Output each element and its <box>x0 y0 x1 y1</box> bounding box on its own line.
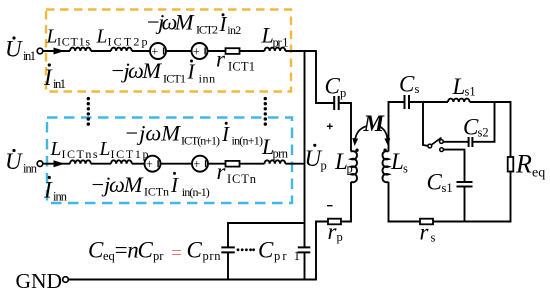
svg-text:ICT2p: ICT2p <box>108 35 148 49</box>
svg-text:prn: prn <box>273 147 289 161</box>
wire: Req to bottom rail <box>433 172 511 222</box>
svg-text:L: L <box>390 149 404 174</box>
switch pole contact <box>428 144 432 148</box>
wire: branch n output to rail <box>285 163 304 165</box>
ellipsis between branches left <box>87 97 90 126</box>
inductor L_ICT2p <box>111 48 132 51</box>
wire: Cp feed down <box>316 50 334 103</box>
polarity dot secondary <box>383 149 386 152</box>
svg-text:ICTn: ICTn <box>227 172 257 186</box>
svg-text:pr 1: pr 1 <box>273 36 289 50</box>
wire: r_s to Ls bottom <box>389 182 421 222</box>
svg-text:in1: in1 <box>53 77 66 91</box>
resistor r_ICTn <box>226 161 240 167</box>
svg-text:ICTns: ICTns <box>62 147 98 161</box>
switch throw contact to Cs2 <box>440 140 444 144</box>
svg-text:in(n-1): in(n-1) <box>182 185 210 199</box>
svg-text:I: I <box>221 122 230 146</box>
wire <box>132 163 145 165</box>
inductor L_prn <box>265 160 286 163</box>
wire: Cs2 to top rail <box>472 101 494 142</box>
mutual coupling arrow right <box>379 126 388 140</box>
wire <box>240 50 265 52</box>
svg-text:C: C <box>187 238 203 263</box>
inductor L_ICT1p <box>111 160 132 163</box>
svg-text:+: + <box>151 44 158 58</box>
svg-text:s: s <box>431 231 436 245</box>
wire: C_prn top branch <box>228 223 305 247</box>
wire <box>208 163 226 165</box>
current arrow I_inn <box>54 160 65 167</box>
capacitor C_prn <box>221 247 235 252</box>
svg-text:I: I <box>43 65 53 90</box>
wire <box>132 50 150 52</box>
svg-text:ICT1: ICT1 <box>228 60 255 74</box>
svg-text:ICT2: ICT2 <box>196 23 218 37</box>
wire: Cs1 to bottom rail <box>464 187 466 222</box>
label + (U_p polarity) <box>327 123 333 129</box>
wire: r_p to ground rail <box>316 222 328 281</box>
inductor L_ICT1s <box>70 48 91 51</box>
svg-text:−jωM: −jωM <box>146 10 195 35</box>
capacitor Cs1 <box>457 182 473 187</box>
capacitor Cs <box>405 95 410 109</box>
svg-text:C: C <box>325 74 341 99</box>
svg-text:ICT1: ICT1 <box>163 72 186 86</box>
svg-text:GND: GND <box>16 269 63 293</box>
wire: throw to Cs2 <box>443 141 468 143</box>
svg-text:p: p <box>347 162 353 176</box>
svg-text:s: s <box>403 162 408 176</box>
svg-text:C: C <box>258 238 274 263</box>
resistor r_s <box>420 219 433 225</box>
dashed box: ICT branch n (cyan) <box>47 118 292 204</box>
svg-text:L: L <box>96 27 108 48</box>
svg-text:M: M <box>363 111 386 136</box>
svg-text:p: p <box>337 230 343 244</box>
svg-text:C: C <box>88 238 104 263</box>
polarity dot primary <box>355 149 358 152</box>
mutual coupling arrow left <box>355 126 366 140</box>
ellipsis between C_prn and C_pr1 <box>237 248 255 251</box>
wire <box>161 163 193 165</box>
dependent source -jwM_ICT2*I_in2 (circle U1a) <box>150 43 166 59</box>
svg-text:I: I <box>187 60 196 84</box>
dependent source -jwM_ICTn*I_in(n-1) (circle Unb) <box>192 156 208 172</box>
svg-text:−jωM: −jωM <box>110 58 162 83</box>
svg-text:s1: s1 <box>442 181 453 195</box>
svg-text:pr: pr <box>153 249 164 263</box>
resistor r_ICT1 <box>226 48 240 54</box>
svg-text:r: r <box>217 159 227 184</box>
svg-text:ICT1s: ICT1s <box>57 35 90 49</box>
wire: main vertical rail node P <box>304 50 306 247</box>
svg-text:C: C <box>399 72 415 97</box>
svg-text:−jωM: −jωM <box>124 121 181 146</box>
resistor r_p <box>328 219 341 225</box>
wire: Uin1 to L_ICT1s <box>43 50 70 52</box>
wire: Cs to Ls1 <box>409 101 448 103</box>
wire <box>208 50 226 52</box>
svg-text:s2: s2 <box>478 126 489 140</box>
wire: rail below C_pr1 to ground rail <box>304 252 306 280</box>
capacitor Cp <box>334 96 339 110</box>
svg-text:r: r <box>216 47 226 72</box>
svg-text:s1: s1 <box>465 85 476 99</box>
svg-text:L: L <box>50 139 62 160</box>
wire: Ls1 to right rail <box>470 102 511 157</box>
wire: Cp to Lp <box>339 103 351 152</box>
resistor Req <box>508 157 514 172</box>
inductor Ls1 <box>448 99 470 102</box>
svg-text:L: L <box>452 74 466 99</box>
label - (U_p polarity) <box>327 205 333 207</box>
svg-text:eq: eq <box>532 166 545 181</box>
svg-text:inn: inn <box>23 162 38 176</box>
dependent source -jwM_ICT(n+1)*I_in(n+1) (circle Una) <box>145 156 161 172</box>
svg-text:I: I <box>170 173 179 197</box>
svg-text:prn: prn <box>203 249 222 263</box>
dashed box: ICT branch 1 (yellow) <box>46 10 291 92</box>
svg-text:r: r <box>420 220 430 245</box>
wire <box>91 50 111 52</box>
wire <box>166 50 192 52</box>
capacitor Cs2 <box>469 137 473 147</box>
inductor Ls (secondary) <box>383 151 389 182</box>
svg-text:=: = <box>115 238 128 263</box>
svg-text:s: s <box>415 82 420 96</box>
svg-text:ICTn: ICTn <box>144 185 169 199</box>
switch lever <box>432 138 442 145</box>
node Uin1 terminal <box>37 48 43 54</box>
svg-text:inn: inn <box>199 72 216 86</box>
ellipsis between branches right <box>264 97 267 126</box>
svg-text:+: + <box>193 157 200 171</box>
svg-text:I: I <box>43 178 53 203</box>
svg-text:L: L <box>99 139 111 160</box>
svg-text:ICT1p: ICT1p <box>111 147 149 161</box>
svg-text:=: = <box>171 244 181 264</box>
svg-text:+: + <box>193 44 200 58</box>
wire <box>240 163 265 165</box>
svg-text:in1: in1 <box>23 49 36 63</box>
capacitor C_pr1 <box>298 247 311 252</box>
inductor L_pr1 <box>265 48 286 51</box>
svg-text:ICT(n+1): ICT(n+1) <box>181 134 220 148</box>
svg-text:C: C <box>427 170 443 195</box>
svg-text:inn: inn <box>53 190 68 204</box>
wire: branch1 output to Cp branch corner <box>285 50 316 52</box>
wire: throw to Cs1 <box>444 150 465 182</box>
svg-text:in(n+1): in(n+1) <box>232 134 264 148</box>
wire: switch feed from Cs node <box>423 101 428 146</box>
svg-text:in2: in2 <box>227 23 241 37</box>
inductor L_ICTns <box>70 160 91 163</box>
svg-text:R: R <box>515 150 532 179</box>
current arrow I_in1 <box>54 48 65 55</box>
svg-text:p: p <box>321 159 327 173</box>
svg-text:−jωM: −jωM <box>90 172 144 197</box>
dependent source -jwM_ICT1*I_inn (circle U1b) <box>192 43 208 59</box>
svg-text:U: U <box>5 149 23 174</box>
wire: Ls top to Cs <box>389 102 405 152</box>
ground terminal GND <box>63 277 69 283</box>
wire: Uinn to L_ICTns <box>43 163 70 165</box>
node Uinn terminal <box>37 161 43 167</box>
switch throw contact to Cs1 <box>440 148 444 152</box>
svg-text:C: C <box>138 238 154 263</box>
inductor Lp (primary) <box>351 151 357 182</box>
wire <box>91 163 111 165</box>
wire: C_prn to ground rail <box>227 252 229 279</box>
wire: ground rail <box>68 279 316 281</box>
svg-text:L: L <box>46 27 58 48</box>
svg-text:p: p <box>340 86 346 100</box>
wire: Lp bottom to r_p <box>341 182 351 222</box>
svg-text:U: U <box>5 37 23 62</box>
